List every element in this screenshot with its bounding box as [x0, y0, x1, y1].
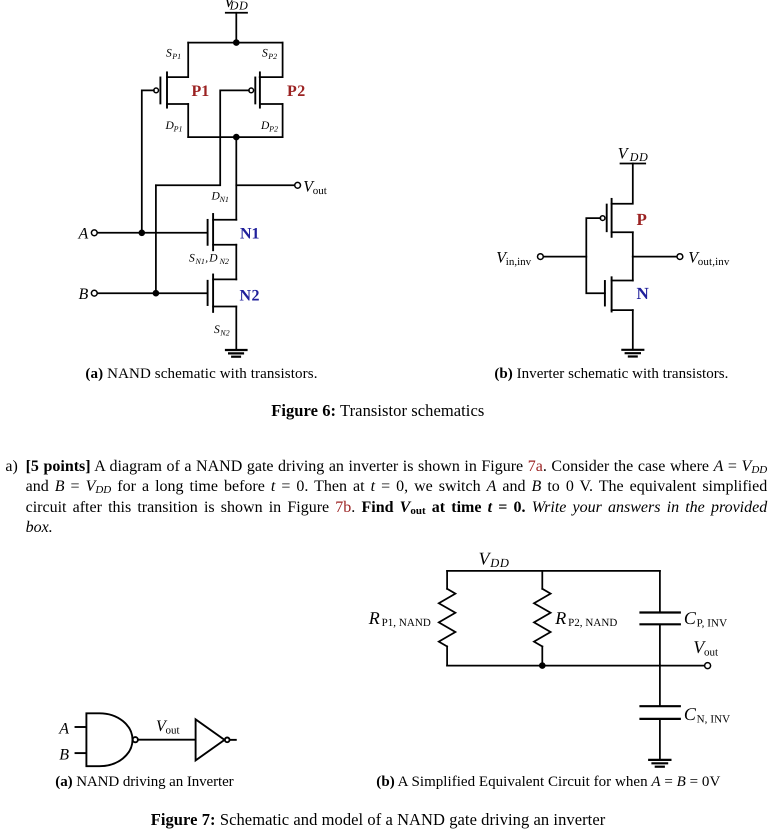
- wire P1 drain drop: [187, 104, 189, 137]
- NAND gate U1: [86, 713, 137, 766]
- label RP2,NAND: [554, 608, 617, 629]
- wire input B stub: [76, 752, 87, 754]
- label N: [637, 284, 650, 303]
- wire NAND to inverter: [139, 739, 196, 741]
- label P: [637, 210, 647, 229]
- wire N source drop: [632, 310, 634, 350]
- wire gate riser: [586, 218, 605, 293]
- wire P1 source drop: [167, 43, 188, 78]
- wire left drop: [446, 571, 448, 589]
- label A (gate): [58, 721, 69, 738]
- wire output: [633, 256, 677, 258]
- node Vout,inv terminal: [677, 254, 683, 260]
- wire N2 source drop: [235, 307, 237, 350]
- label N2: [240, 287, 261, 304]
- transistor N1: [208, 214, 237, 250]
- wire mid drop 2: [541, 646, 543, 665]
- label DP1: [165, 120, 183, 134]
- ground (7b): [649, 760, 670, 767]
- transistor N: [605, 277, 633, 311]
- inverter U2: [196, 719, 230, 760]
- wire center drop to N1 drain: [235, 137, 237, 220]
- label Vin,inv: [496, 249, 531, 268]
- capacitor CP,INV: [641, 613, 680, 625]
- label SN1,DN2: [189, 252, 229, 266]
- label DN1: [211, 191, 229, 205]
- wire Vout: [236, 184, 295, 186]
- wire P2 source drop: [260, 43, 283, 78]
- wire VDD drop: [612, 164, 633, 204]
- svg-text:C: C: [684, 704, 697, 724]
- wire drain rail: [188, 136, 282, 138]
- resistor RP1,NAND: [439, 589, 456, 647]
- label CP,INV: [684, 608, 727, 629]
- capacitor CN,INV: [641, 706, 680, 719]
- wire mid drop: [541, 571, 543, 589]
- wire cap N to ground: [659, 720, 661, 760]
- label VDD: [224, 0, 248, 13]
- node mid junction: [539, 662, 546, 669]
- wire cap P to rail: [659, 625, 661, 665]
- transistor P: [600, 199, 633, 237]
- wire top rail (VDD): [447, 570, 660, 572]
- svg-text:P, INV: P, INV: [697, 618, 728, 630]
- label Vout,inv: [688, 249, 730, 268]
- svg-text:out: out: [704, 646, 718, 658]
- label DP2: [260, 120, 278, 134]
- node drain rail junction: [233, 134, 240, 141]
- transistor P1: [154, 72, 188, 107]
- wire input B: [97, 292, 208, 294]
- wire B riser: [155, 185, 157, 293]
- label SN2: [214, 324, 230, 338]
- label Vout: [303, 179, 327, 198]
- svg-text:R: R: [554, 608, 566, 628]
- label B (gate): [59, 747, 69, 764]
- label CN,INV: [684, 704, 730, 725]
- wire left drop 2: [446, 646, 448, 665]
- label SP1: [166, 48, 181, 62]
- wire input: [543, 256, 586, 258]
- wire top rail: [188, 42, 282, 44]
- wire bottom rail: [447, 665, 705, 667]
- label N1: [240, 226, 260, 243]
- resistor RP2,NAND: [534, 589, 551, 647]
- ground (inverter): [622, 350, 643, 357]
- node VDD rail junction: [233, 39, 240, 46]
- node A terminal: [91, 230, 97, 236]
- wire right drop: [659, 571, 661, 612]
- svg-text:P2, NAND: P2, NAND: [568, 617, 617, 629]
- label Vout (gate): [156, 718, 180, 737]
- transistor P2: [249, 72, 283, 107]
- node B terminal: [91, 290, 97, 296]
- node Vout terminal (7b): [705, 663, 711, 669]
- wire N1 source to N2 drain: [235, 245, 237, 280]
- svg-text:R: R: [368, 608, 380, 628]
- label P1: [192, 83, 210, 100]
- node B junction: [153, 290, 160, 297]
- wire A riser to P1 gate: [142, 90, 154, 232]
- wire P drain drop: [632, 232, 634, 256]
- wire P2 drain drop: [282, 104, 284, 137]
- VDD supply bar (inverter): [621, 163, 646, 165]
- wire VDD to top rail: [235, 13, 237, 43]
- label Vout (7b): [693, 637, 718, 658]
- svg-text:C: C: [684, 608, 697, 628]
- ground: [226, 350, 247, 357]
- label RP1,NAND: [368, 608, 431, 629]
- svg-text:P1, NAND: P1, NAND: [382, 617, 431, 629]
- label SP2: [262, 48, 277, 62]
- wire input A: [97, 232, 208, 234]
- svg-text:DD: DD: [489, 556, 509, 570]
- node Vin,inv terminal: [538, 254, 544, 260]
- label A: [78, 226, 89, 243]
- wire right drop 3: [659, 666, 661, 706]
- label B: [79, 286, 89, 303]
- label VDD (7b): [479, 549, 510, 571]
- wire inverter output stub: [230, 739, 236, 741]
- wire N drain rise: [632, 257, 634, 281]
- transistor N2: [208, 275, 237, 312]
- node Vout terminal: [295, 182, 301, 188]
- label P2: [287, 83, 306, 100]
- svg-text:N, INV: N, INV: [697, 713, 731, 725]
- node A junction: [139, 230, 146, 237]
- wire P2 gate to node B riser: [156, 90, 249, 185]
- label VDD (inverter): [618, 146, 649, 165]
- VDD supply bar: [226, 12, 247, 14]
- wire input A stub: [76, 726, 87, 728]
